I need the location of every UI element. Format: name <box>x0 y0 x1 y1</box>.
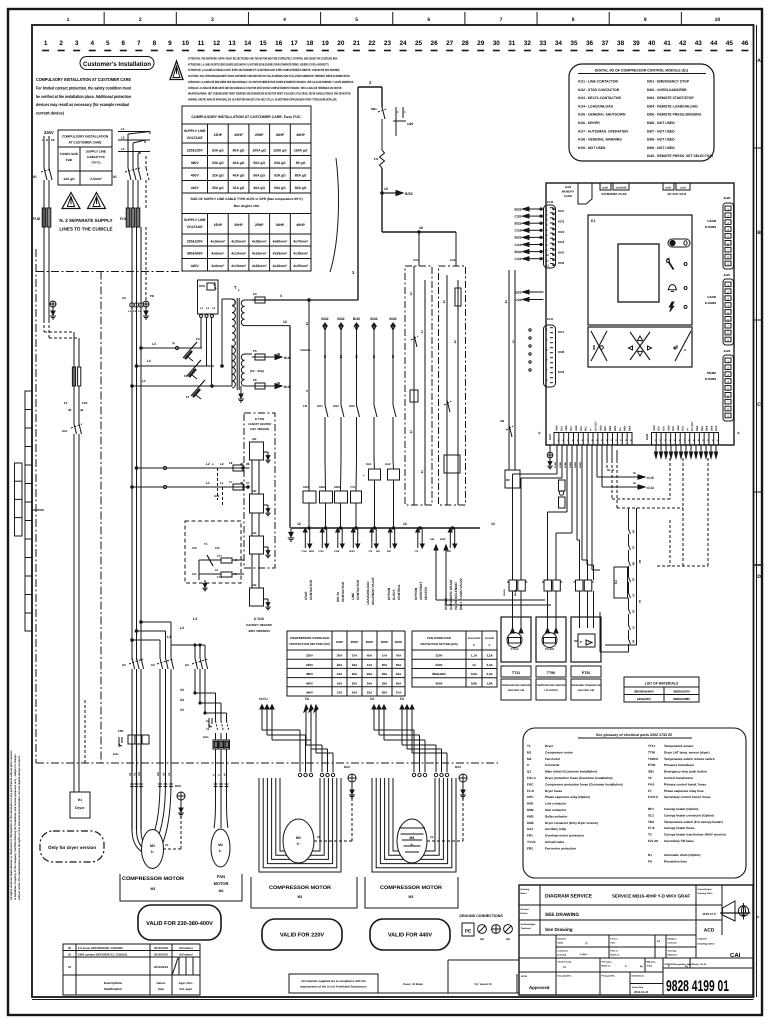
svg-text:29: 29 <box>246 462 250 466</box>
wire 18 branch <box>382 226 456 266</box>
svg-text:OPTION: OPTION <box>387 587 391 600</box>
svg-text:P: P <box>580 640 582 644</box>
svg-text:B/32: B/32 <box>389 317 396 321</box>
warning triangle attention <box>170 61 183 80</box>
ground transformer secondary <box>238 386 244 402</box>
fuse F6 <box>252 378 291 389</box>
svg-text:LINE: LINE <box>351 593 355 600</box>
fuse F8 <box>229 461 250 471</box>
box G1 converter <box>614 567 628 598</box>
svg-text:44: 44 <box>710 40 718 47</box>
svg-text:KM1: KM1 <box>527 802 534 806</box>
switch DX contacts group A <box>122 658 144 745</box>
svg-text:CANOPY HEATER: CANOPY HEATER <box>248 423 271 426</box>
fuse F7 <box>229 480 250 490</box>
svg-text:L3: L3 <box>121 147 125 151</box>
svg-text:F1: F1 <box>64 401 68 405</box>
svg-text:4x70mm²: 4x70mm² <box>293 239 309 243</box>
svg-text:VALID FOR 440V: VALID FOR 440V <box>388 933 433 939</box>
svg-text:RF1: RF1 <box>648 807 654 811</box>
svg-text:B/2: B/2 <box>387 550 391 553</box>
svg-text:is forbidden. Property of the: is forbidden. Property of the company. C… <box>14 754 17 900</box>
svg-text:GND: GND <box>653 425 656 431</box>
svg-text:12: 12 <box>215 568 219 572</box>
svg-text:1x24&4/6: 1x24&4/6 <box>615 187 627 190</box>
svg-text:3,3A: 3,3A <box>486 663 493 667</box>
svg-text:KO5 - GENERAL SHUTDOWN: KO5 - GENERAL SHUTDOWN <box>578 113 626 117</box>
svg-text:KM3: KM3 <box>334 485 340 489</box>
svg-text:13: 13 <box>229 40 237 47</box>
svg-text:◇: ◇ <box>584 941 588 945</box>
svg-text:9828419980: 9828419980 <box>673 697 690 701</box>
svg-text:Blank vl.: Blank vl. <box>602 965 611 968</box>
svg-text:11: 11 <box>323 355 327 359</box>
wire main supply entry L1 L2 L3 <box>118 127 150 168</box>
svg-text:KO5: KO5 <box>413 259 419 262</box>
svg-text:10 FU: 10 FU <box>259 697 268 701</box>
label wire tags below module <box>554 461 582 468</box>
svg-text:Temperature switch (For canopy: Temperature switch (For canopy heater) <box>664 820 723 824</box>
svg-text:Derived: Derived <box>521 908 530 911</box>
svg-text:CPC: CPC <box>527 795 534 799</box>
svg-text:PE: PE <box>317 836 321 839</box>
svg-text:Customer's Installation: Customer's Installation <box>83 61 151 68</box>
svg-text:SEE DRAWING: SEE DRAWING <box>545 912 579 918</box>
icon voltage lightning <box>669 302 687 312</box>
svg-text:1: 1 <box>67 17 70 23</box>
svg-text:IG: IG <box>33 175 37 179</box>
svg-text:M1: M1 <box>150 844 155 848</box>
fuse FU4 control <box>374 119 385 168</box>
svg-text:400V: 400V <box>306 681 313 685</box>
svg-text:DI07 - NOT USED: DI07 - NOT USED <box>647 129 675 133</box>
svg-text:16: 16 <box>275 40 283 47</box>
label TT11 <box>501 666 531 700</box>
svg-text:2,3A: 2,3A <box>486 672 493 676</box>
svg-text:Replaces: Replaces <box>668 954 678 957</box>
svg-text:B/22: B/22 <box>515 222 522 226</box>
svg-text:3: 3 <box>280 294 282 298</box>
svg-text:KO1 - LINE CONTACTOR: KO1 - LINE CONTACTOR <box>578 80 619 84</box>
svg-text:DX3: DX3 <box>344 765 350 769</box>
svg-text:BZ: BZ <box>638 560 641 564</box>
svg-text:12A gG: 12A gG <box>63 177 75 181</box>
sensor PT20 pressure transducer <box>571 591 601 662</box>
svg-text:12: 12 <box>491 522 495 526</box>
svg-text:LAT DRYER: LAT DRYER <box>544 689 558 692</box>
connector io out rj11 <box>663 183 690 196</box>
svg-text:Max lenghts 10m: Max lenghts 10m <box>234 204 260 208</box>
svg-text:DC-OUT: DC-OUT <box>594 421 597 431</box>
svg-text:C/20: C/20 <box>515 214 522 218</box>
svg-text:A/6: A/6 <box>430 538 435 541</box>
svg-text:380V: 380V <box>306 672 313 676</box>
table title block <box>519 885 753 995</box>
svg-text:30A: 30A <box>337 654 343 658</box>
svg-text:Copener: Copener <box>698 938 708 941</box>
svg-text:RF: RF <box>506 478 510 482</box>
wire IG to FUC <box>128 180 146 208</box>
box glossary legend <box>523 728 746 878</box>
label part number <box>666 978 729 995</box>
svg-text:without notice. The manufactur: without notice. The manufacturer reserve… <box>18 755 21 900</box>
wire L-steps to star group <box>131 617 197 658</box>
bus 12 control <box>291 522 495 529</box>
svg-text:Pressure transducer: Pressure transducer <box>664 763 695 767</box>
svg-text:Secondary TB fuses: Secondary TB fuses <box>664 839 694 843</box>
overload FR1 <box>118 729 149 744</box>
ground bus 12 <box>288 528 295 541</box>
svg-text:5: 5 <box>355 17 358 23</box>
wire group C tie <box>171 644 205 658</box>
svg-text:220V: 220V <box>435 654 442 658</box>
wire cubicle boundary dash-dot <box>36 249 498 763</box>
switch DX contacts group B <box>151 658 174 782</box>
svg-text:B/29: B/29 <box>349 550 355 553</box>
svg-text:L2: L2 <box>220 462 224 466</box>
table compressor overload protection <box>287 631 405 696</box>
svg-text:AO1: AO1 <box>682 425 685 431</box>
svg-text:W1: W1 <box>138 772 141 776</box>
svg-text:4x16mm²: 4x16mm² <box>210 239 226 243</box>
svg-text:e.type: e.type <box>580 953 588 956</box>
svg-text:9: 9 <box>168 40 172 47</box>
svg-text:KO3: KO3 <box>558 230 565 234</box>
svg-text:DIGITAL I/O OF COMPRESSOR CONT: DIGITAL I/O OF COMPRESSOR CONTROL MODULE… <box>595 69 688 73</box>
svg-text:15HP: 15HP <box>336 640 344 644</box>
ruler right margin row letters <box>754 58 763 580</box>
svg-text:L1: L1 <box>220 481 224 485</box>
svg-text:M2: M2 <box>218 843 223 847</box>
svg-text:DI01: DI01 <box>604 425 607 431</box>
wire L1 heater <box>131 481 250 489</box>
svg-text:28: 28 <box>462 40 470 47</box>
svg-text:32: 32 <box>524 40 532 47</box>
switch IG main <box>113 168 149 180</box>
svg-text:PE: PE <box>150 294 154 298</box>
svg-text:230V: 230V <box>44 130 54 135</box>
svg-text:TT11: TT11 <box>512 671 520 675</box>
svg-text:TD2: TD2 <box>580 426 583 431</box>
svg-text:3,2A: 3,2A <box>486 654 493 658</box>
svg-text:DELIVERY AIR: DELIVERY AIR <box>508 689 525 692</box>
svg-text:SUPPLY LINE: SUPPLY LINE <box>184 129 207 133</box>
svg-text:V+: V+ <box>590 427 593 431</box>
svg-text:PROTECTION SETTING [D/S]: PROTECTION SETTING [D/S] <box>420 643 457 646</box>
svg-text:Overload motor protection: Overload motor protection <box>545 834 584 838</box>
svg-text:71: 71 <box>420 330 424 334</box>
svg-text:C/2: C/2 <box>369 550 373 553</box>
wire TERMAL sense <box>300 299 311 460</box>
svg-text:39: 39 <box>633 40 641 47</box>
svg-text:(70°C): (70°C) <box>92 161 101 165</box>
svg-text:Compressor motor: Compressor motor <box>545 750 574 754</box>
svg-text:KA1: KA1 <box>366 462 372 466</box>
box canopy heater 400V dashed <box>185 521 244 591</box>
coil KM7 canopy <box>250 513 271 558</box>
svg-text:///: /// <box>737 431 740 435</box>
svg-text:SERVICE MB16-40HP Y-D WKV GRAF: SERVICE MB16-40HP Y-D WKV GRAF <box>612 894 690 899</box>
svg-text:DI02 - OVERLOADS/FBR: DI02 - OVERLOADS/FBR <box>647 88 687 92</box>
svg-text:ATTENZIONE: LA LINEA DI RETE D: ATTENZIONE: LA LINEA DI RETE DEVE ESSERE… <box>188 62 329 66</box>
svg-text:Canopy heater (Option): Canopy heater (Option) <box>664 807 698 811</box>
svg-text:01: 01 <box>68 953 72 957</box>
keypad buttons row <box>588 327 692 367</box>
svg-text:SB1: SB1 <box>371 107 377 111</box>
svg-text:TEMPERATURE SENSOR: TEMPERATURE SENSOR <box>537 684 566 687</box>
svg-text:YV1: YV1 <box>350 485 356 489</box>
ground connections legend <box>459 914 512 941</box>
svg-text:KO4: KO4 <box>558 240 565 244</box>
svg-text:25HP: 25HP <box>255 223 264 227</box>
svg-text:Fan motor: Fan motor <box>545 757 561 761</box>
svg-text:PT20: PT20 <box>648 763 656 767</box>
svg-text:GROUND CONNECTIONS: GROUND CONNECTIONS <box>459 914 503 918</box>
svg-text:KO2: KO2 <box>349 404 355 408</box>
svg-text:B/34: B/34 <box>203 736 209 739</box>
svg-text:F1: F1 <box>186 395 190 399</box>
svg-text:TT90: TT90 <box>547 671 555 675</box>
wire supply dryer L N <box>44 136 49 168</box>
svg-text:1x24: 1x24 <box>680 187 686 190</box>
svg-text:29: 29 <box>477 40 485 47</box>
svg-text:L2: L2 <box>206 462 210 466</box>
label load unload valve (rotated) <box>366 577 375 605</box>
svg-text:COMPRESSOR MOTOR: COMPRESSOR MOTOR <box>380 885 442 891</box>
ground module <box>547 445 553 469</box>
wire curve bracket right of table <box>330 158 338 272</box>
svg-text:Temperature sensor: Temperature sensor <box>664 744 694 748</box>
svg-text:P: P <box>473 644 475 647</box>
svg-text:2x26: 2x26 <box>665 187 671 190</box>
svg-text:T2: T2 <box>648 776 652 780</box>
label delta contactor (rotated) <box>336 581 345 602</box>
svg-text:DI09: DI09 <box>710 425 713 431</box>
svg-text:25HP: 25HP <box>255 133 264 137</box>
svg-text:F7: F7 <box>648 789 652 793</box>
svg-text:T1: T1 <box>527 744 531 748</box>
wire module arrows B/22 C/22 <box>515 290 544 302</box>
svg-text:70: 70 <box>409 292 413 296</box>
svg-text:50A gG: 50A gG <box>253 173 265 177</box>
svg-text:B/22: B/22 <box>515 207 522 211</box>
svg-text:N. 2 SEPARATE SUPPLY: N. 2 SEPARATE SUPPLY <box>59 218 112 223</box>
svg-text:Scale: Scale <box>558 942 565 945</box>
svg-text:13A: 13A <box>337 691 343 695</box>
svg-text:PD1: PD1 <box>585 426 588 431</box>
svg-text:160A gG: 160A gG <box>294 148 308 152</box>
svg-text:ACHTUNG: DAS VERSORGUNGSNETZ M: ACHTUNG: DAS VERSORGUNGSNETZ MUSS GETREN… <box>188 74 350 78</box>
svg-text:44/BK: 44/BK <box>569 461 572 468</box>
coil YV1 <box>350 460 362 528</box>
svg-text:L2: L2 <box>180 626 184 630</box>
motor M2 fan <box>211 800 230 867</box>
svg-text:1: 1 <box>44 40 48 47</box>
svg-text:FAN OVERLOAD: FAN OVERLOAD <box>427 636 452 640</box>
svg-text:DX3: DX3 <box>455 765 461 769</box>
svg-text:Appr.,Chk.,: Appr.,Chk., <box>179 981 194 985</box>
svg-text:400V: 400V <box>191 173 200 177</box>
svg-text:220V: 220V <box>306 654 313 658</box>
motor M1 compressor star-delta <box>132 782 171 869</box>
switch SB1 emergency stop <box>371 107 413 136</box>
svg-text:PE: PE <box>165 844 169 847</box>
svg-text:380/400&440V: 380/400&440V <box>634 690 654 694</box>
svg-text:G1: G1 <box>614 580 618 584</box>
svg-text:4: 4 <box>283 17 286 23</box>
svg-text:FU: FU <box>400 697 405 701</box>
svg-text:7: 7 <box>500 17 503 23</box>
svg-text:PT100: PT100 <box>511 648 519 651</box>
svg-text:01: 01 <box>68 965 72 969</box>
svg-text:DI03 - REMOTE START/STOP: DI03 - REMOTE START/STOP <box>647 96 695 100</box>
svg-text:Customs: Customs <box>668 942 678 945</box>
svg-text:Temperature switch remote swit: Temperature switch remote switch <box>664 757 715 761</box>
svg-text:FUSES SIZE: FUSES SIZE <box>60 152 78 156</box>
svg-text:230V: 230V <box>435 663 442 667</box>
svg-text:FR1: FR1 <box>527 834 533 838</box>
svg-text:7: 7 <box>137 40 141 47</box>
svg-text:R1: R1 <box>78 798 82 802</box>
svg-text:3: 3 <box>75 40 79 47</box>
svg-text:VALID FOR 230-380-400V: VALID FOR 230-380-400V <box>146 921 213 927</box>
svg-text:CONTACTOR: CONTACTOR <box>356 579 360 600</box>
svg-text:41: 41 <box>664 40 672 47</box>
box digital IO list <box>569 64 714 161</box>
svg-text:10: 10 <box>715 17 721 23</box>
svg-text:37A: 37A <box>352 654 358 658</box>
svg-text:KM3: KM3 <box>527 814 534 818</box>
svg-text:43: 43 <box>68 408 72 412</box>
svg-text:1st Issue DRF20031030, CI32406: 1st Issue DRF20031030, CI324066 <box>78 946 123 950</box>
svg-text:P: P <box>489 644 491 647</box>
svg-text:Dryer fuses: Dryer fuses <box>545 789 562 793</box>
svg-text:Blank.m.: Blank.m. <box>611 954 621 957</box>
resistor RF termination <box>559 480 566 508</box>
svg-text:F6: F6 <box>253 378 257 382</box>
svg-text:D-SUB9: D-SUB9 <box>705 225 716 229</box>
svg-text:Drawing Class: Drawing Class <box>698 892 714 895</box>
svg-text:1,1A: 1,1A <box>471 654 478 658</box>
svg-text:40A gG: 40A gG <box>233 161 245 165</box>
svg-text:DI04 - REMOTE LOAD/UNLOAD: DI04 - REMOTE LOAD/UNLOAD <box>647 104 698 108</box>
svg-text:M1: M1 <box>296 836 301 840</box>
svg-text:PE: PE <box>51 138 55 142</box>
svg-text:(5V - 3VA): (5V - 3VA) <box>250 369 264 373</box>
svg-text:DIAGRAM SERVICE: DIAGRAM SERVICE <box>545 894 593 900</box>
svg-text:40HP: 40HP <box>296 133 305 137</box>
svg-text:D-SUB9: D-SUB9 <box>705 377 716 381</box>
svg-text:35: 35 <box>570 40 578 47</box>
svg-text:8: 8 <box>572 17 575 23</box>
wire SM chain <box>500 270 520 488</box>
svg-text:requirements of the List of Pr: requirements of the List of Prohibited S… <box>300 985 367 989</box>
svg-text:20HP: 20HP <box>351 640 359 644</box>
svg-text:4x10mm²: 4x10mm² <box>231 264 247 268</box>
svg-text:TERMAL: TERMAL <box>300 349 311 352</box>
svg-text:COMPULSORY INSTALLATION: COMPULSORY INSTALLATION <box>62 135 109 139</box>
svg-text:M1: M1 <box>527 750 532 754</box>
label line contactor (rotated) <box>351 579 360 600</box>
svg-text:12: 12 <box>283 320 287 324</box>
svg-text:VOLTAGE: VOLTAGE <box>187 136 204 140</box>
svg-text:Descriptions: Descriptions <box>104 981 123 985</box>
svg-text:18: 18 <box>306 40 314 47</box>
svg-text:V+: V+ <box>686 427 689 431</box>
svg-text:120: 120 <box>192 546 197 550</box>
svg-text:Line contactor: Line contactor <box>545 802 567 806</box>
svg-text:KO3 - DELTA CONTACTOR: KO3 - DELTA CONTACTOR <box>578 96 621 100</box>
svg-text:2x20: 2x20 <box>724 196 731 200</box>
svg-text:10: 10 <box>182 40 190 47</box>
svg-text:Dryer LAT temp. sensor (dryer): Dryer LAT temp. sensor (dryer) <box>664 750 710 754</box>
svg-text:TD4: TD4 <box>662 426 665 431</box>
svg-text:0,8A: 0,8A <box>471 681 478 685</box>
svg-text:N: N <box>46 138 48 142</box>
svg-text:DX: DX <box>151 663 155 667</box>
bracket compressor motor group 1 <box>120 874 242 901</box>
svg-text:8: 8 <box>153 40 157 47</box>
svg-text:Main switch (Customer Installa: Main switch (Customer Installation) <box>545 770 597 774</box>
svg-text:KM: KM <box>252 531 257 535</box>
svg-text:F4-5: F4-5 <box>648 782 655 786</box>
svg-text:12: 12 <box>403 522 407 526</box>
svg-text:B/40: B/40 <box>284 385 291 389</box>
svg-text:KM4: KM4 <box>527 821 534 825</box>
label PT20 <box>571 666 602 700</box>
svg-text:KM2: KM2 <box>527 808 534 812</box>
svg-text:14: 14 <box>244 40 252 47</box>
svg-text:D/32: D/32 <box>440 538 446 541</box>
svg-text:Current/Issue: Current/Issue <box>698 888 713 891</box>
svg-text:XC1: XC1 <box>648 813 654 817</box>
svg-text:F77: F77 <box>217 554 222 558</box>
svg-text:OPTION: OPTION <box>414 587 418 600</box>
svg-text:GND: GND <box>565 425 568 431</box>
title block middle rows <box>519 935 753 995</box>
svg-text:44: 44 <box>80 408 84 412</box>
svg-text:2012/07/10: 2012/07/10 <box>154 953 168 957</box>
svg-text:37: 37 <box>246 481 250 485</box>
svg-text:Primary control transf. fuses: Primary control transf. fuses <box>664 782 706 786</box>
svg-text:PROTECTION SETTING [FR]: PROTECTION SETTING [FR] <box>289 642 329 646</box>
svg-text:40HP: 40HP <box>395 640 403 644</box>
svg-text:Fan motor protection: Fan motor protection <box>545 846 576 850</box>
svg-text:2x26: 2x26 <box>602 187 608 190</box>
svg-text:TSHH1: TSHH1 <box>648 757 658 761</box>
svg-text:2012/04/23: 2012/04/23 <box>154 965 168 969</box>
svg-text:M2: M2 <box>527 757 532 761</box>
svg-text:F27-28: F27-28 <box>648 839 658 843</box>
svg-text:63A gG: 63A gG <box>274 173 286 177</box>
svg-text:L1: L1 <box>206 481 210 485</box>
svg-text:L1: L1 <box>167 635 171 639</box>
svg-text:DC-OUT: DC-OUT <box>691 421 694 431</box>
svg-text:M8: M8 <box>480 938 484 941</box>
svg-text:VARNING: NAETET MAASTE FRAANSK: VARNING: NAETET MAASTE FRAANSKILJAS OCH … <box>188 97 337 101</box>
svg-text:V2: V2 <box>180 688 184 692</box>
svg-text:440V: 440V <box>191 186 200 190</box>
svg-text:SIZE OF SUPPLY LINE CABLE TY: SIZE OF SUPPLY LINE CABLE TYPE XLPE or E… <box>190 197 302 201</box>
svg-text:26A: 26A <box>382 691 388 695</box>
svg-text:M1: M1 <box>409 895 414 899</box>
svg-text:2x26: 2x26 <box>565 185 572 189</box>
svg-text:ETHERNET PLAS: ETHERNET PLAS <box>601 192 626 196</box>
svg-text:DRW030/Designation NextSheet: DRW030/Designation NextSheet ( ) 01 01 <box>665 963 708 966</box>
button navigation arrows <box>629 332 652 360</box>
svg-text:Print gov.,: Print gov., <box>602 961 613 964</box>
svg-text:DI05 - REMOTE PRESS./SENSING: DI05 - REMOTE PRESS./SENSING <box>647 113 702 117</box>
